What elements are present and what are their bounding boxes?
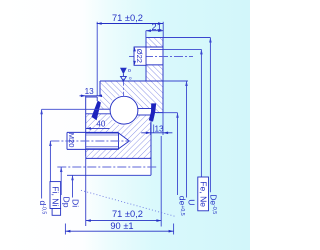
texts [110, 13, 161, 231]
De: boss top projection [146, 37, 210, 39]
inner ring top face + lip [86, 96, 98, 98]
ball vertical centerline [123, 79, 125, 97]
M20 tapped hole white slot [86, 133, 119, 149]
bracket left of 13 right [153, 125, 155, 133]
O22 label box with arrows [134, 47, 146, 65]
centerlines (dash-dot) [50, 57, 193, 168]
svg-text:71 ±0,2: 71 ±0,2 [112, 13, 143, 23]
dim 13 right [141, 132, 172, 134]
gear tip/bottom line (with Di projection left) [67, 174, 151, 176]
bearing section white silhouette: outer+inner rings [86, 81, 163, 175]
svg-text:40: 40 [96, 120, 106, 129]
svg-text:Ø22: Ø22 [135, 49, 144, 63]
top dim 71 +-0,2 [97, 23, 163, 25]
FeNe leader [200, 49, 202, 177]
d: raceway gap projection [42, 108, 100, 110]
dimension lines with arrows [65, 22, 173, 232]
M20 hole outline [86, 133, 129, 149]
label box Fe,Ne [198, 177, 209, 211]
Di leader [72, 175, 74, 197]
hatch: inner ring + gear body [86, 114, 151, 159]
svg-text:90 ±1: 90 ±1 [110, 221, 133, 231]
mounting boss silhouette (top right block with hole) [146, 38, 163, 82]
de: step projection [156, 112, 178, 114]
surface finish triangle (open) [121, 76, 127, 81]
hatch: outer ring [100, 81, 163, 113]
rings top face [100, 80, 163, 82]
svg-text:71 ±0,2: 71 ±0,2 [112, 209, 143, 219]
svg-text:M20: M20 [67, 133, 76, 148]
FeNe: hole top projection [163, 48, 201, 50]
dotted leader diagonal [81, 190, 175, 216]
U: rings top projection [163, 80, 188, 82]
de leader [177, 113, 179, 195]
FiNi leader [49, 141, 51, 182]
gear pitch line (Dp projection) [57, 166, 156, 168]
outer ring left face [99, 81, 101, 97]
svg-text:13: 13 [155, 124, 165, 133]
right slot white gap [136, 109, 151, 116]
bottom 90 ext [64, 224, 66, 235]
svg-text:Fe, Ne: Fe, Ne [198, 181, 208, 207]
svg-text:21: 21 [152, 22, 162, 32]
hatch: boss lower flange [146, 65, 163, 81]
halo behind 40 text [96, 121, 109, 127]
svg-text:o: o [129, 76, 132, 81]
gear right face [150, 115, 152, 175]
ball circle [110, 96, 138, 124]
Dp leader [60, 167, 62, 195]
right slot edges [138, 108, 152, 110]
M20 thread lines + label box [67, 131, 119, 133]
dim 40 [86, 127, 110, 129]
gear root line [86, 157, 151, 159]
vertical labels (rotate 90 cw) [51, 49, 209, 208]
step on right edge [155, 112, 164, 114]
svg-text:o: o [128, 68, 131, 74]
M20 hole drill cone white [119, 133, 130, 149]
hatch: boss upper band [146, 38, 163, 48]
d leader [41, 109, 43, 198]
label box Fi,Ni [50, 182, 61, 209]
13 right bottom ext [162, 113, 164, 136]
white margin + ball [109, 95, 140, 126]
label box Fi,Ni lower compartment [52, 209, 61, 216]
top right ext shared 71/21 [162, 22, 164, 38]
bottom dim 71 +-0,2 [86, 220, 162, 222]
right seal (black wedge) [149, 103, 156, 121]
leader verticals with up arrows [40, 38, 211, 199]
svg-text:Dp: Dp [62, 197, 72, 208]
svg-text:Fi, Ni: Fi, Ni [51, 186, 61, 206]
left seal (black wedge) [92, 101, 101, 121]
bottom dim 90 +-1 [65, 230, 173, 232]
left slot edges [100, 108, 111, 110]
hole O22 centerline [129, 56, 193, 58]
projection lines to leaders [42, 38, 211, 113]
dim extension lines [65, 22, 173, 235]
boss outline [145, 38, 147, 82]
svg-text:13: 13 [85, 87, 95, 96]
dim 21 [146, 30, 163, 32]
De leader [209, 38, 211, 193]
M20 centerline (FiNi projection) [50, 140, 130, 142]
inner ring left face [85, 96, 87, 156]
71 top left ext / 13 right ext [96, 22, 98, 96]
svg-text:Di: Di [71, 199, 81, 207]
dim 13 top left [80, 95, 100, 97]
surface finish triangle (filled) [120, 68, 127, 75]
21 left ext [145, 31, 147, 38]
U leader [186, 81, 188, 198]
bottom 71 ext [160, 136, 162, 227]
